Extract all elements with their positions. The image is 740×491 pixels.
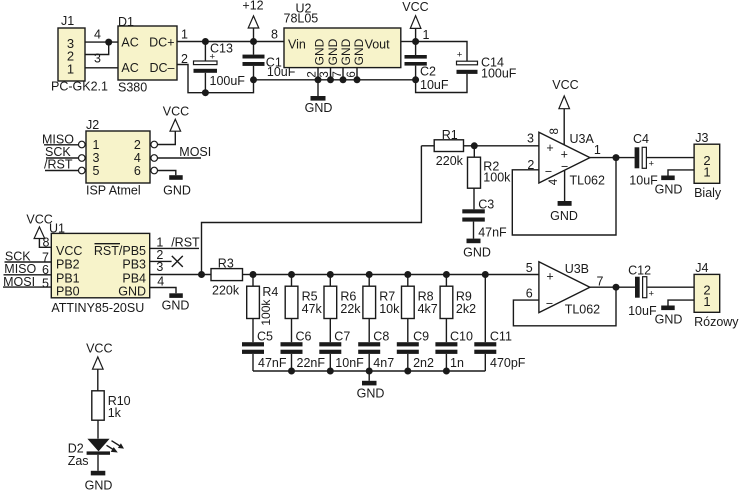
ground at U1 pin4 <box>162 293 190 312</box>
svg-text:GND: GND <box>357 387 385 401</box>
svg-text:+: + <box>457 50 463 61</box>
node VCC junction <box>412 38 419 45</box>
svg-text:GND: GND <box>352 38 366 65</box>
svg-text:6: 6 <box>42 263 49 277</box>
wire MISO to J2 pin1 <box>44 144 79 146</box>
wire U1 pin3 to R3 <box>150 274 211 276</box>
capacitor C3 <box>462 198 507 240</box>
svg-text:RST/PB5: RST/PB5 <box>94 244 146 258</box>
wire U2 Vout to VCC node <box>401 41 416 43</box>
svg-text:+: + <box>546 141 553 155</box>
svg-text:AC: AC <box>121 36 138 50</box>
svg-text:22k: 22k <box>340 302 361 316</box>
node U2 pin6 <box>354 76 361 83</box>
svg-text:100k: 100k <box>483 171 511 185</box>
svg-text:J3: J3 <box>695 131 708 145</box>
svg-text:C12: C12 <box>628 264 651 278</box>
wire ground bus under U2 <box>254 79 416 81</box>
resistor R4 <box>247 275 279 343</box>
svg-text:1: 1 <box>93 138 100 152</box>
node junction J1 <box>105 39 112 46</box>
svg-text:Vout: Vout <box>365 37 391 51</box>
resistor R8 <box>402 275 438 343</box>
svg-text:GND: GND <box>655 313 683 327</box>
resistor R3 <box>211 257 253 298</box>
svg-text:4: 4 <box>134 151 141 165</box>
node rail R5 <box>288 271 295 278</box>
svg-text:PB2: PB2 <box>56 258 80 272</box>
svg-text:C7: C7 <box>334 330 350 344</box>
node rail R8 <box>404 271 411 278</box>
svg-text:/RST: /RST <box>171 236 200 250</box>
svg-text:1: 1 <box>703 294 710 309</box>
node pin3 junction <box>198 271 205 278</box>
power VCC symbol top <box>402 0 428 42</box>
wire D1 pin1 to U2 Vin <box>177 41 284 43</box>
wire U3B output <box>590 286 635 288</box>
svg-text:3: 3 <box>93 151 100 165</box>
svg-text:GND: GND <box>85 478 113 491</box>
wire J2 pin4 MOSI <box>158 157 202 159</box>
capacitor C10 <box>435 330 473 371</box>
svg-text:4n7: 4n7 <box>373 356 394 370</box>
node U2 pin3 <box>327 76 334 83</box>
svg-text:1: 1 <box>67 62 74 77</box>
svg-text:10uF: 10uF <box>420 78 449 92</box>
svg-text:TL062: TL062 <box>565 303 600 317</box>
ground at J2 pin6 <box>158 171 191 198</box>
svg-text:PB1: PB1 <box>56 271 80 285</box>
node rail R6 <box>327 271 334 278</box>
svg-text:DC–: DC– <box>149 61 174 75</box>
wire U2 pin2 stub <box>317 68 319 80</box>
svg-text:1: 1 <box>703 164 710 179</box>
wire feedback riser to R1 <box>202 146 422 275</box>
svg-text:C4: C4 <box>633 132 649 146</box>
svg-text:C13: C13 <box>210 41 233 55</box>
capacitor C14 <box>457 50 517 81</box>
resistor R1 <box>421 128 474 168</box>
svg-text:2n2: 2n2 <box>413 356 434 370</box>
no-connect X <box>172 256 183 267</box>
svg-text:8: 8 <box>549 128 561 134</box>
svg-text:4: 4 <box>548 178 560 185</box>
ground under D2 <box>85 471 113 491</box>
LED D2 <box>68 439 124 468</box>
svg-text:GND: GND <box>313 38 327 65</box>
node rail R4 <box>250 271 257 278</box>
wire SCK to U1 pin7 <box>5 261 52 263</box>
node C13 top <box>202 38 209 45</box>
node U3B output junction <box>613 284 620 291</box>
svg-text:3: 3 <box>94 52 101 66</box>
wire U2 pin7 stub <box>342 68 344 80</box>
svg-text:C8: C8 <box>373 330 389 344</box>
power VCC at R10 <box>86 342 112 391</box>
node U2 pin2 <box>315 76 322 83</box>
node rail C11 <box>482 271 489 278</box>
wire J1 pin2 up to junction <box>85 42 109 54</box>
svg-text:AC: AC <box>121 61 138 75</box>
resistor R2 <box>468 146 512 210</box>
svg-text:GND: GND <box>655 182 683 196</box>
ground under C3 <box>463 239 491 260</box>
resistor R7 <box>363 275 400 343</box>
resistor R6 <box>324 275 361 343</box>
svg-text:R1: R1 <box>442 128 458 142</box>
node C13 bottom <box>202 89 209 96</box>
wire U2 pin3 stub <box>330 68 332 80</box>
svg-text:GND: GND <box>163 183 191 197</box>
svg-text:+: + <box>546 270 553 284</box>
resistor R9 <box>440 275 476 343</box>
wire C2 bottom to C14 bottom <box>416 74 467 93</box>
power VCC at U1 <box>26 212 52 247</box>
ground under filter bank <box>357 371 385 401</box>
node bottom C9 <box>404 368 411 375</box>
svg-text:3: 3 <box>156 260 163 274</box>
svg-text:22nF: 22nF <box>297 356 326 370</box>
op-amp U3B <box>539 262 600 317</box>
svg-text:TL062: TL062 <box>570 173 605 187</box>
svg-text:5: 5 <box>42 277 49 291</box>
node U3A output junction <box>613 154 620 161</box>
connector J4 <box>694 261 739 329</box>
svg-text:6: 6 <box>134 164 141 178</box>
op-amp U3A <box>539 132 605 187</box>
wire U3A output <box>590 157 635 159</box>
svg-text:6: 6 <box>526 287 533 301</box>
svg-text:Bialy: Bialy <box>694 186 722 200</box>
wire LED to ground <box>97 455 99 471</box>
svg-text:10k: 10k <box>379 302 400 316</box>
wire U2 pin6 stub <box>356 68 358 80</box>
svg-text:78L05: 78L05 <box>284 12 319 26</box>
wire filter rail to U3B pin5 <box>253 274 539 276</box>
node U2 pin7 <box>340 76 347 83</box>
node rail R9 <box>443 271 450 278</box>
svg-text:ISP Atmel: ISP Atmel <box>86 183 141 197</box>
wire MISO to U1 pin6 <box>4 274 52 276</box>
svg-text:PB3: PB3 <box>122 258 146 272</box>
svg-text:C11: C11 <box>490 330 512 344</box>
wire U1 pin2 no-connect <box>150 260 172 262</box>
svg-text:C2: C2 <box>420 64 436 78</box>
svg-text:−: − <box>545 164 552 178</box>
svg-text:100uF: 100uF <box>481 67 517 81</box>
svg-text:VCC: VCC <box>56 244 82 258</box>
svg-text:470pF: 470pF <box>490 356 526 370</box>
svg-text:C9: C9 <box>413 330 429 344</box>
ground at U3A pin4 <box>550 170 578 223</box>
capacitor C2 <box>405 42 449 93</box>
svg-text:GND: GND <box>463 245 491 259</box>
resistor R5 <box>285 275 322 343</box>
svg-text:C10: C10 <box>450 330 473 344</box>
svg-text:VCC: VCC <box>86 342 112 356</box>
svg-text:−: − <box>546 296 553 310</box>
power +12 symbol <box>242 0 263 42</box>
svg-text:5: 5 <box>93 164 100 178</box>
svg-text:220k: 220k <box>436 154 464 168</box>
svg-text:2k2: 2k2 <box>456 302 476 316</box>
wire U1 pin1 /RST <box>150 247 199 249</box>
svg-text:S380: S380 <box>118 81 147 95</box>
capacitor C7 <box>319 330 364 371</box>
svg-text:GND: GND <box>118 285 146 299</box>
svg-text:GND: GND <box>162 298 190 312</box>
svg-text:10nF: 10nF <box>335 356 364 370</box>
node R1-R2 junction <box>471 142 478 149</box>
svg-text:J4: J4 <box>695 261 708 275</box>
svg-text:100k: 100k <box>259 299 273 326</box>
power VCC at J2 <box>158 104 190 144</box>
svg-text:4: 4 <box>94 27 101 41</box>
capacitor C8 <box>358 330 394 371</box>
wire U1 pin4 to ground <box>150 288 176 294</box>
svg-text:5: 5 <box>526 261 533 275</box>
svg-text:VCC: VCC <box>402 0 428 14</box>
svg-text:10uF: 10uF <box>628 304 657 318</box>
svg-text:VCC: VCC <box>552 78 578 92</box>
wire U3B feedback <box>513 287 616 326</box>
svg-text:C6: C6 <box>296 330 312 344</box>
svg-text:PB0: PB0 <box>56 285 80 299</box>
capacitor C13 <box>194 41 246 92</box>
svg-text:1: 1 <box>423 28 430 42</box>
node bottom C8 <box>366 368 373 375</box>
svg-text:U3A: U3A <box>570 132 595 146</box>
svg-text:GND: GND <box>550 209 578 223</box>
svg-text:+: + <box>649 158 655 169</box>
regulator U2 <box>284 2 401 68</box>
wire D1 pin2 down to ground rail <box>177 65 254 93</box>
svg-text:J2: J2 <box>86 118 99 132</box>
svg-text:100uF: 100uF <box>210 74 246 88</box>
wire J1 pin3 to D1 <box>85 41 118 43</box>
capacitor C5 <box>242 330 287 371</box>
svg-text:DC+: DC+ <box>149 36 174 50</box>
MCU U1 <box>49 221 150 315</box>
svg-text:C3: C3 <box>478 198 494 212</box>
svg-text:+12: +12 <box>242 0 263 13</box>
capacitor C9 <box>397 330 434 371</box>
capacitor C6 <box>281 330 326 371</box>
svg-text:/RST: /RST <box>44 157 73 171</box>
svg-text:1: 1 <box>594 143 601 157</box>
power VCC at U3A <box>552 78 578 145</box>
svg-text:4k7: 4k7 <box>418 302 438 316</box>
svg-text:MOSI: MOSI <box>179 145 211 159</box>
resistor R10 <box>92 391 131 439</box>
svg-text:1: 1 <box>181 28 188 42</box>
svg-text:220k: 220k <box>212 283 240 297</box>
svg-text:GND: GND <box>339 38 353 65</box>
svg-text:J1: J1 <box>61 14 74 28</box>
node C1 bottom <box>250 76 257 83</box>
wire /RST to J2 pin5 <box>45 170 79 172</box>
svg-text:GND: GND <box>305 101 333 115</box>
svg-text:2: 2 <box>134 138 141 152</box>
node bottom C6 <box>288 368 295 375</box>
wire junction to U3A pin3 <box>474 145 539 147</box>
svg-text:1n: 1n <box>450 356 464 370</box>
svg-text:C5: C5 <box>257 330 273 344</box>
svg-text:1k: 1k <box>108 406 122 420</box>
svg-text:7: 7 <box>597 274 604 288</box>
capacitor C11 <box>474 275 526 372</box>
svg-text:4: 4 <box>157 275 164 289</box>
node bottom C7 <box>327 368 334 375</box>
svg-text:Vin: Vin <box>288 37 306 51</box>
svg-text:R4: R4 <box>262 285 278 299</box>
svg-text:8: 8 <box>43 236 50 250</box>
ground at J3 pin1 <box>655 170 694 197</box>
svg-text:PC-GK2.1: PC-GK2.1 <box>51 80 108 94</box>
node +12 junction <box>250 38 257 45</box>
capacitor C1 <box>243 42 296 80</box>
svg-text:U3B: U3B <box>565 262 589 276</box>
wire VCC node to C14 branch <box>416 42 467 62</box>
svg-text:3: 3 <box>527 132 534 146</box>
svg-text:PB4: PB4 <box>122 271 146 285</box>
svg-text:R3: R3 <box>218 257 234 271</box>
capacitor C4 <box>629 132 694 188</box>
svg-text:+: + <box>649 289 655 300</box>
svg-text:ATTINY85-20SU: ATTINY85-20SU <box>51 301 144 315</box>
ground under U2 <box>305 80 333 115</box>
wire U3A feedback <box>512 158 616 235</box>
wire SCK to J2 pin3 <box>46 157 79 159</box>
capacitor C12 <box>628 264 694 318</box>
svg-text:GND: GND <box>326 38 340 65</box>
svg-text:47k: 47k <box>302 302 323 316</box>
svg-text:Zas: Zas <box>68 454 89 468</box>
connector J1 <box>51 14 108 94</box>
wire filter bottom rail <box>253 370 485 372</box>
rectifier D1 <box>118 15 177 95</box>
node rail R7 <box>366 271 373 278</box>
ground at J4 pin1 <box>655 300 694 326</box>
svg-text:VCC: VCC <box>163 104 189 118</box>
connector J2 <box>79 118 158 197</box>
svg-text:8: 8 <box>271 28 278 42</box>
node C2 bottom <box>412 76 419 83</box>
wire J1 pin1 to D1 <box>85 67 118 69</box>
node bottom C10 <box>443 368 450 375</box>
svg-text:47nF: 47nF <box>478 225 507 239</box>
svg-text:Rózowy: Rózowy <box>694 315 739 329</box>
connector J3 <box>694 131 722 200</box>
svg-text:47nF: 47nF <box>258 356 287 370</box>
wire MOSI to U1 pin5 <box>3 286 51 288</box>
